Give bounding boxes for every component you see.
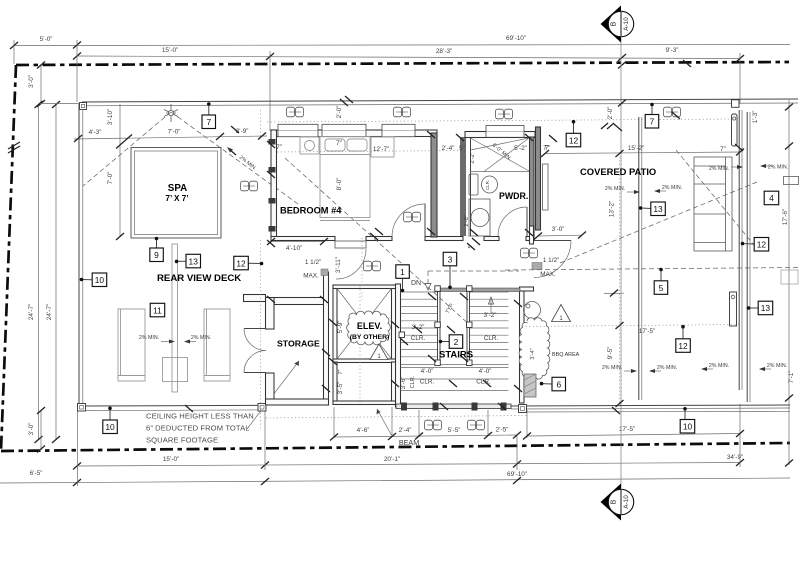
svg-text:10: 10: [95, 275, 105, 285]
svg-text:CLR.: CLR.: [410, 375, 416, 388]
dim text 4'-3": [89, 129, 102, 136]
dim text 17'-5" bottom: [619, 426, 635, 433]
left dim 3'-0" vertical: [28, 62, 45, 108]
bbq warning triangle 1: [552, 305, 571, 323]
room label SPA: [165, 183, 188, 203]
svg-text:3’-11”: 3’-11”: [335, 257, 342, 273]
svg-text:2% MIN.: 2% MIN.: [139, 335, 159, 341]
DN dashed arrow: [425, 271, 431, 290]
room label REAR VIEW DECK: [157, 273, 241, 284]
bottom dim row A: line: [73, 459, 744, 470]
svg-text:12: 12: [757, 240, 767, 250]
svg-text:7’ X 7’: 7’ X 7’: [165, 194, 188, 203]
right margin small rect top: [784, 177, 799, 185]
entry mirror: [543, 164, 549, 210]
patio 2% MIN top pair: [605, 186, 640, 194]
stair hall south wall: [436, 288, 520, 292]
svg-text:MAX.: MAX.: [540, 271, 556, 278]
dim text 3'-5" rotated closet: [337, 382, 344, 395]
svg-text:9’-5”: 9’-5”: [607, 347, 614, 360]
corner post top-left: [80, 103, 87, 110]
keynote 1 stairs: [396, 265, 410, 293]
bbq west wall: [520, 291, 525, 403]
closet below elevator walls: [333, 362, 396, 405]
downspout top: [732, 114, 738, 146]
patio east wall double lines: [739, 110, 750, 402]
dim text 34'-9": [727, 454, 743, 461]
svg-text:15’-2”: 15’-2”: [628, 145, 644, 152]
dim text 5" bedroom wall rotated: [468, 243, 474, 248]
svg-text:5”: 5”: [459, 145, 465, 152]
stairs dim 4'-0" CLR left: [420, 368, 435, 386]
svg-text:12: 12: [569, 135, 579, 145]
patio dim 15'-2" line: [541, 149, 744, 158]
svg-text:13’-2”: 13’-2”: [609, 201, 616, 217]
svg-text:4: 4: [769, 193, 774, 203]
svg-text:3: 3: [448, 254, 453, 264]
svg-text:9: 9: [154, 250, 159, 260]
section marker bottom B/A-10: [601, 484, 634, 521]
svg-text:4’-0”: 4’-0”: [421, 368, 434, 375]
dim text 13'-2" rotated: [609, 201, 616, 217]
dim text 2'-4": [399, 427, 412, 434]
svg-text:11: 11: [153, 305, 162, 315]
roof drain starburst: [164, 104, 178, 122]
svg-text:2’-4”: 2’-4”: [442, 145, 455, 152]
closet east wall (hatched): [431, 133, 437, 237]
room label BEDROOM #4: [280, 206, 342, 216]
entry step walls: [520, 226, 534, 291]
max gray pad entry side: [532, 263, 542, 270]
bbq counter cloud: [519, 318, 550, 379]
svg-text:4’-10”: 4’-10”: [286, 245, 302, 252]
svg-text:5’-9”: 5’-9”: [337, 321, 344, 334]
building top edge double line: [82, 99, 798, 106]
svg-text:69’-10”: 69’-10”: [506, 35, 526, 42]
keynote 7 patio: [645, 103, 659, 128]
powder room east wall: [530, 137, 535, 236]
svg-text:7: 7: [650, 117, 655, 127]
powder door leaf and swing: [498, 207, 527, 236]
svg-text:7: 7: [206, 117, 211, 127]
stair treads right flight: [470, 292, 509, 357]
dim text 69'-10" bottom: [507, 471, 527, 478]
section cut line: [620, 38, 622, 488]
dim text 1 1/2" MAX bedroom: [303, 259, 321, 280]
svg-text:2% MIN.: 2% MIN.: [605, 186, 625, 192]
svg-text:BEDROOM #4: BEDROOM #4: [280, 206, 342, 216]
entry wall east of powder: [536, 127, 541, 230]
svg-text:5’-5”: 5’-5”: [448, 427, 461, 434]
spa outer rect: [131, 148, 221, 239]
svg-text:7’-0”: 7’-0”: [168, 129, 181, 136]
dim text 2'-5": [496, 427, 509, 434]
dim text 9'-5" rotated: [607, 347, 614, 360]
svg-text:3’-2”: 3’-2”: [412, 324, 425, 331]
corner post bbq wall bottom: [519, 405, 527, 413]
deck planter strip: [163, 244, 188, 392]
deck vertical dim line: [107, 104, 124, 240]
bedroom door leaf and swing: [392, 204, 425, 238]
svg-text:4’-3”: 4’-3”: [89, 129, 102, 136]
dim text 5'-2" powder: [514, 145, 527, 152]
room label STAIRS: [439, 350, 473, 361]
keynote 6 bbq: [540, 377, 566, 391]
svg-text:2’-4”: 2’-4”: [399, 427, 412, 434]
dim line deck top row: [74, 133, 267, 143]
patio right 2% MIN top pair: [709, 165, 743, 172]
svg-text:B: B: [611, 21, 618, 26]
dim text 6'-0" MIN rotated: [491, 142, 513, 162]
dim text 4'-6": [357, 427, 370, 434]
svg-text:7”: 7”: [543, 145, 549, 152]
stair treads left flight: [401, 292, 438, 357]
svg-text:3’-10”: 3’-10”: [107, 109, 114, 125]
powder diagonal ceiling lines: [470, 138, 529, 172]
dim text 7" patio left: [543, 145, 549, 152]
patio couch: [694, 157, 732, 251]
stairs south wall with posts: [396, 403, 511, 411]
label DN: [411, 280, 421, 287]
svg-text:REAR VIEW DECK: REAR VIEW DECK: [157, 273, 241, 284]
dim text 4'-10": [286, 245, 302, 252]
stairs dim 3'-2" CLR right: [484, 312, 499, 342]
svg-text:7’-0”: 7’-0”: [107, 172, 114, 185]
bedroom south wall segments: [271, 237, 534, 241]
svg-text:2% MIN.: 2% MIN.: [709, 166, 729, 172]
svg-text:1 1/2”: 1 1/2”: [543, 257, 559, 264]
stairs dashed diagonal: [285, 158, 472, 327]
svg-text:4’-6”: 4’-6”: [357, 427, 370, 434]
dim text 5'-5": [448, 427, 461, 434]
dim text 8'-0" rotated: [336, 178, 343, 191]
upper floor dashed line: [505, 268, 798, 271]
elevator warning triangle 1: [370, 344, 388, 360]
dotted line bedroom dims: [277, 151, 465, 153]
dim text 15'-0" top: [162, 47, 178, 54]
svg-text:8’-0”: 8’-0”: [336, 178, 343, 191]
svg-text:B: B: [611, 499, 618, 504]
svg-text:1: 1: [400, 267, 405, 277]
lounge chair 2: [204, 309, 230, 381]
svg-text:CLR.: CLR.: [420, 379, 435, 386]
svg-text:2% MIN.: 2% MIN.: [768, 165, 788, 171]
svg-text:69’-10”: 69’-10”: [507, 471, 527, 478]
dim text 15'-0" bottom: [163, 456, 179, 463]
dim text 2'-2" rotated closet: [470, 152, 476, 163]
dim text 7" bedroom: [276, 144, 282, 151]
extension lines top: [14, 40, 740, 131]
dim text 2'-0" rotated: [336, 106, 343, 119]
property line south (heavy dashed): [1, 443, 790, 451]
svg-text:CLR.: CLR.: [485, 180, 490, 190]
svg-text:CLR.: CLR.: [484, 335, 499, 342]
svg-text:28’-3”: 28’-3”: [436, 48, 452, 55]
stairs 3'-6" CLR rotated: [400, 375, 416, 389]
downspout bottom: [730, 292, 737, 326]
storage south wall: [266, 399, 329, 405]
powder sink counter: [469, 199, 490, 236]
hall door leaf and swing: [335, 241, 366, 279]
svg-text:MAX.: MAX.: [303, 273, 319, 280]
dotted line deck edge: [260, 240, 262, 430]
bottom extension lines: [78, 404, 741, 486]
svg-text:24’-7”: 24’-7”: [46, 304, 53, 320]
room label STORAGE: [277, 339, 320, 349]
dim text 7" patio right: [720, 146, 726, 153]
nightstand with lamp: [300, 137, 319, 154]
keynote 7 deck: [202, 102, 216, 128]
svg-text:A-10: A-10: [623, 17, 630, 31]
keynote 4 patio right: [764, 191, 779, 205]
svg-text:4’-0”: 4’-0”: [479, 368, 492, 375]
elevator shaft walls: [333, 285, 396, 363]
svg-text:3’-6”: 3’-6”: [400, 377, 407, 390]
dim text 15'-2" patio: [628, 145, 644, 152]
corner post bottom-mid: [258, 404, 266, 412]
svg-text:15’-0”: 15’-0”: [163, 456, 179, 463]
keynote 13 deck: [175, 254, 201, 267]
svg-text:7”: 7”: [720, 146, 726, 153]
ceiling dotted line across plan: [267, 119, 738, 122]
stairs west wall: [396, 284, 401, 407]
svg-text:BBQ AREA: BBQ AREA: [552, 352, 580, 358]
BEAM label with leader: [377, 409, 420, 447]
tick cross on patio: [604, 290, 624, 297]
stair up arrow: [489, 297, 494, 313]
keynote 9 spa: [150, 237, 164, 262]
patio vertical dim dotted: [616, 150, 624, 407]
powder room west wall line: [470, 137, 472, 236]
svg-text:BEAM: BEAM: [399, 438, 419, 447]
svg-text:SQUARE FOOTAGE: SQUARE FOOTAGE: [146, 436, 218, 445]
dotted centerline elevator: [359, 286, 361, 403]
dotted extension 3'-11": [361, 238, 363, 300]
stair center rails: [438, 288, 470, 364]
svg-text:13: 13: [189, 256, 199, 266]
bottom mid dim row: line: [330, 432, 521, 441]
dim text 9'-3": [666, 47, 679, 54]
svg-text:2% MIN.: 2% MIN.: [602, 365, 622, 371]
dim text 5'-0": [40, 36, 53, 43]
svg-text:2’-0”: 2’-0”: [336, 106, 343, 119]
patio floor south edge: [511, 405, 790, 412]
CEILING HEIGHT note: [146, 412, 254, 445]
svg-text:2% MIN.: 2% MIN.: [709, 363, 729, 369]
dim text 1 1/2" MAX entry: [540, 257, 559, 278]
keynote 12 patio right: [741, 238, 769, 252]
dotted extension bedroom wall: [260, 110, 262, 138]
svg-text:13: 13: [653, 204, 663, 214]
keynote 12 patio bottom: [676, 325, 691, 352]
svg-text:17’-5”: 17’-5”: [639, 328, 655, 335]
svg-text:3’-5”: 3’-5”: [337, 382, 344, 395]
patio dim 17'-5" dotted line: [522, 325, 740, 327]
svg-text:2’-2”: 2’-2”: [470, 152, 476, 163]
svg-text:7”: 7”: [338, 369, 344, 374]
patio 2% MIN bottom row: [602, 365, 637, 373]
keynote 12 deck: [234, 256, 264, 270]
nightstand right: [371, 137, 394, 157]
hall stub wall: [244, 295, 266, 302]
svg-text:3’-2”: 3’-2”: [484, 312, 497, 319]
dim text 12'-7": [373, 146, 389, 153]
dotted line under south walls: [266, 416, 527, 419]
svg-text:ELEV.: ELEV.: [357, 321, 382, 331]
keynote 5 patio: [654, 268, 668, 295]
keynote 10 deck west: [80, 273, 107, 287]
dim row 1 top: line: [10, 42, 790, 50]
svg-text:2’-5”: 2’-5”: [496, 427, 509, 434]
svg-text:7”: 7”: [336, 140, 342, 147]
dim text 3'-11" rotated: [335, 257, 342, 273]
svg-text:5’-0”: 5’-0”: [40, 36, 53, 43]
bbq hatched pad: [524, 374, 536, 397]
svg-text:5: 5: [659, 283, 664, 293]
storage north wall: [274, 298, 324, 305]
stair landing lines: [401, 365, 509, 391]
svg-text:12: 12: [678, 341, 688, 351]
property line west (angled heavy dashed): [1, 65, 16, 450]
svg-text:5’-2”: 5’-2”: [514, 145, 527, 152]
svg-text:10: 10: [105, 422, 115, 432]
room label COVERED PATIO: [580, 166, 656, 177]
bedroom north wall: [271, 124, 437, 136]
svg-text:CEILING HEIGHT LESS THAN: CEILING HEIGHT LESS THAN: [146, 412, 254, 421]
dim text 3'-9": [236, 128, 249, 135]
dim text 2'-8" rotated: [464, 215, 470, 226]
property line north (heavy dashed): [16, 62, 789, 65]
keynote 11 deck: [150, 303, 165, 317]
dim text 28'-3": [436, 48, 452, 55]
keynote 12 entry top: [566, 120, 581, 147]
svg-text:(BY OTHER): (BY OTHER): [350, 334, 390, 341]
svg-text:COVERED PATIO: COVERED PATIO: [580, 166, 656, 177]
dim text 20'-1": [384, 456, 400, 463]
room label PWDR.: [499, 191, 528, 201]
dim row 2 top: line: [73, 53, 744, 69]
stairs dim 3'-2" CLR left: [411, 324, 426, 342]
room label ELEV.: [350, 321, 390, 341]
keynote 10 patio south: [680, 407, 695, 433]
bbq sink circle: [524, 302, 541, 319]
svg-text:PWDR.: PWDR.: [499, 191, 528, 201]
deck 2% MIN right with arrow: [184, 335, 211, 344]
dim text 7'-0": [168, 129, 181, 136]
svg-text:24’-7”: 24’-7”: [28, 304, 35, 320]
svg-text:2% MIN.: 2% MIN.: [657, 365, 677, 371]
svg-text:15’-0”: 15’-0”: [162, 47, 178, 54]
svg-text:3’-0”: 3’-0”: [552, 226, 565, 233]
svg-text:6” DEDUCTED FROM TOTAL: 6” DEDUCTED FROM TOTAL: [146, 424, 250, 433]
patio tick slashes near 2'-0": [601, 100, 626, 130]
dim text 17'-5" patio: [639, 328, 655, 335]
bottom dim row B: line: [0, 477, 790, 486]
bedroom west wall: [269, 130, 277, 238]
svg-text:2% MIN.: 2% MIN.: [662, 185, 682, 191]
label BBQ AREA: [552, 352, 580, 358]
patio roof beam double line: [639, 117, 642, 400]
storage double doors: [244, 329, 266, 373]
svg-text:34’-9”: 34’-9”: [727, 454, 743, 461]
svg-text:20’-1”: 20’-1”: [384, 456, 400, 463]
svg-text:17’-6”: 17’-6”: [782, 209, 789, 225]
keynote 13 patio mid: [639, 202, 666, 216]
keynote 13 patio right: [747, 301, 773, 315]
deck slope dashed line left: [83, 112, 171, 186]
right margin vertical dim line: [752, 100, 795, 467]
svg-text:1’-3”: 1’-3”: [752, 111, 759, 124]
elevator shaft X brace: [337, 289, 392, 360]
svg-text:6: 6: [556, 379, 561, 389]
left bottom dim 3'-0": [28, 407, 45, 453]
dim text 7" rotated closet: [338, 369, 344, 374]
svg-text:STORAGE: STORAGE: [277, 339, 320, 349]
bed: [320, 137, 370, 221]
svg-text:10: 10: [683, 422, 693, 432]
powder room north wall: [465, 126, 535, 138]
svg-text:5”: 5”: [468, 243, 474, 248]
svg-text:2: 2: [454, 337, 459, 347]
corner post top-right: [732, 100, 740, 108]
outlet symbols: [287, 107, 304, 117]
patio dashed slope diagonal down: [676, 150, 758, 250]
svg-text:1 1/2”: 1 1/2”: [305, 259, 321, 266]
keynote 3 hall: [443, 252, 457, 289]
lounge chair 1: [118, 309, 145, 381]
svg-text:7”: 7”: [276, 144, 282, 151]
svg-text:12’-7”: 12’-7”: [373, 146, 389, 153]
leader arrow into storage: [247, 360, 299, 429]
dim text 3'-4" rotated bbq: [530, 348, 536, 359]
2% MIN rotated with arrow on deck slope: [227, 147, 257, 172]
right margin small rect bottom: [781, 270, 798, 284]
left dim pair 24'-7": [28, 101, 82, 443]
dim text 7" bed: [336, 140, 342, 147]
svg-text:9’-3”: 9’-3”: [666, 47, 679, 54]
svg-text:2’-0”: 2’-0”: [607, 107, 614, 120]
closet dark bars: [460, 137, 466, 236]
svg-text:3’-4”: 3’-4”: [530, 348, 536, 359]
svg-text:CLR.: CLR.: [476, 379, 491, 386]
svg-text:7’-1”: 7’-1”: [788, 371, 795, 384]
svg-text:3’-0”: 3’-0”: [28, 75, 35, 88]
dim 4'-10" line: [267, 238, 328, 245]
deck slope dashed line right (continues to hall): [171, 112, 298, 204]
section marker top B/A-10: [601, 6, 634, 43]
svg-text:2% MIN.: 2% MIN.: [191, 335, 211, 341]
svg-text:A-10: A-10: [623, 495, 630, 509]
svg-text:CLR.: CLR.: [411, 335, 426, 342]
svg-text:2’-8”: 2’-8”: [464, 215, 470, 226]
svg-text:DN: DN: [411, 280, 421, 287]
svg-text:SPA: SPA: [168, 183, 187, 194]
dim text 7" powder: [545, 145, 551, 152]
dim text 2'-4" 5" closet: [442, 145, 465, 152]
svg-text:6’-5”: 6’-5”: [30, 470, 43, 477]
wall joint tick marks: [185, 60, 743, 414]
dim text 6'-5": [30, 470, 43, 477]
ceiling opening dashed: [428, 270, 519, 272]
dim text 5'-9" rotated elev: [337, 321, 344, 334]
stair newel posts: [399, 286, 472, 366]
elevator cloud: [347, 311, 391, 345]
svg-text:3’-0”: 3’-0”: [28, 423, 35, 436]
storage east wall: [324, 272, 329, 404]
stairs TYP rotated: [445, 302, 456, 315]
deck 2% MIN left with arrow: [139, 335, 175, 344]
svg-text:12: 12: [236, 258, 246, 268]
